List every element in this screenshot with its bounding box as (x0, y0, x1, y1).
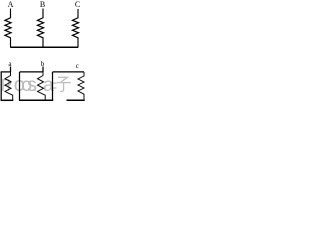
svg-text:C: C (75, 0, 80, 9)
svg-text:os.: os. (21, 74, 37, 96)
svg-text:B: B (40, 0, 45, 9)
svg-text:A: A (8, 0, 14, 9)
svg-text:c: c (76, 62, 79, 70)
svg-text:b: b (41, 60, 45, 68)
